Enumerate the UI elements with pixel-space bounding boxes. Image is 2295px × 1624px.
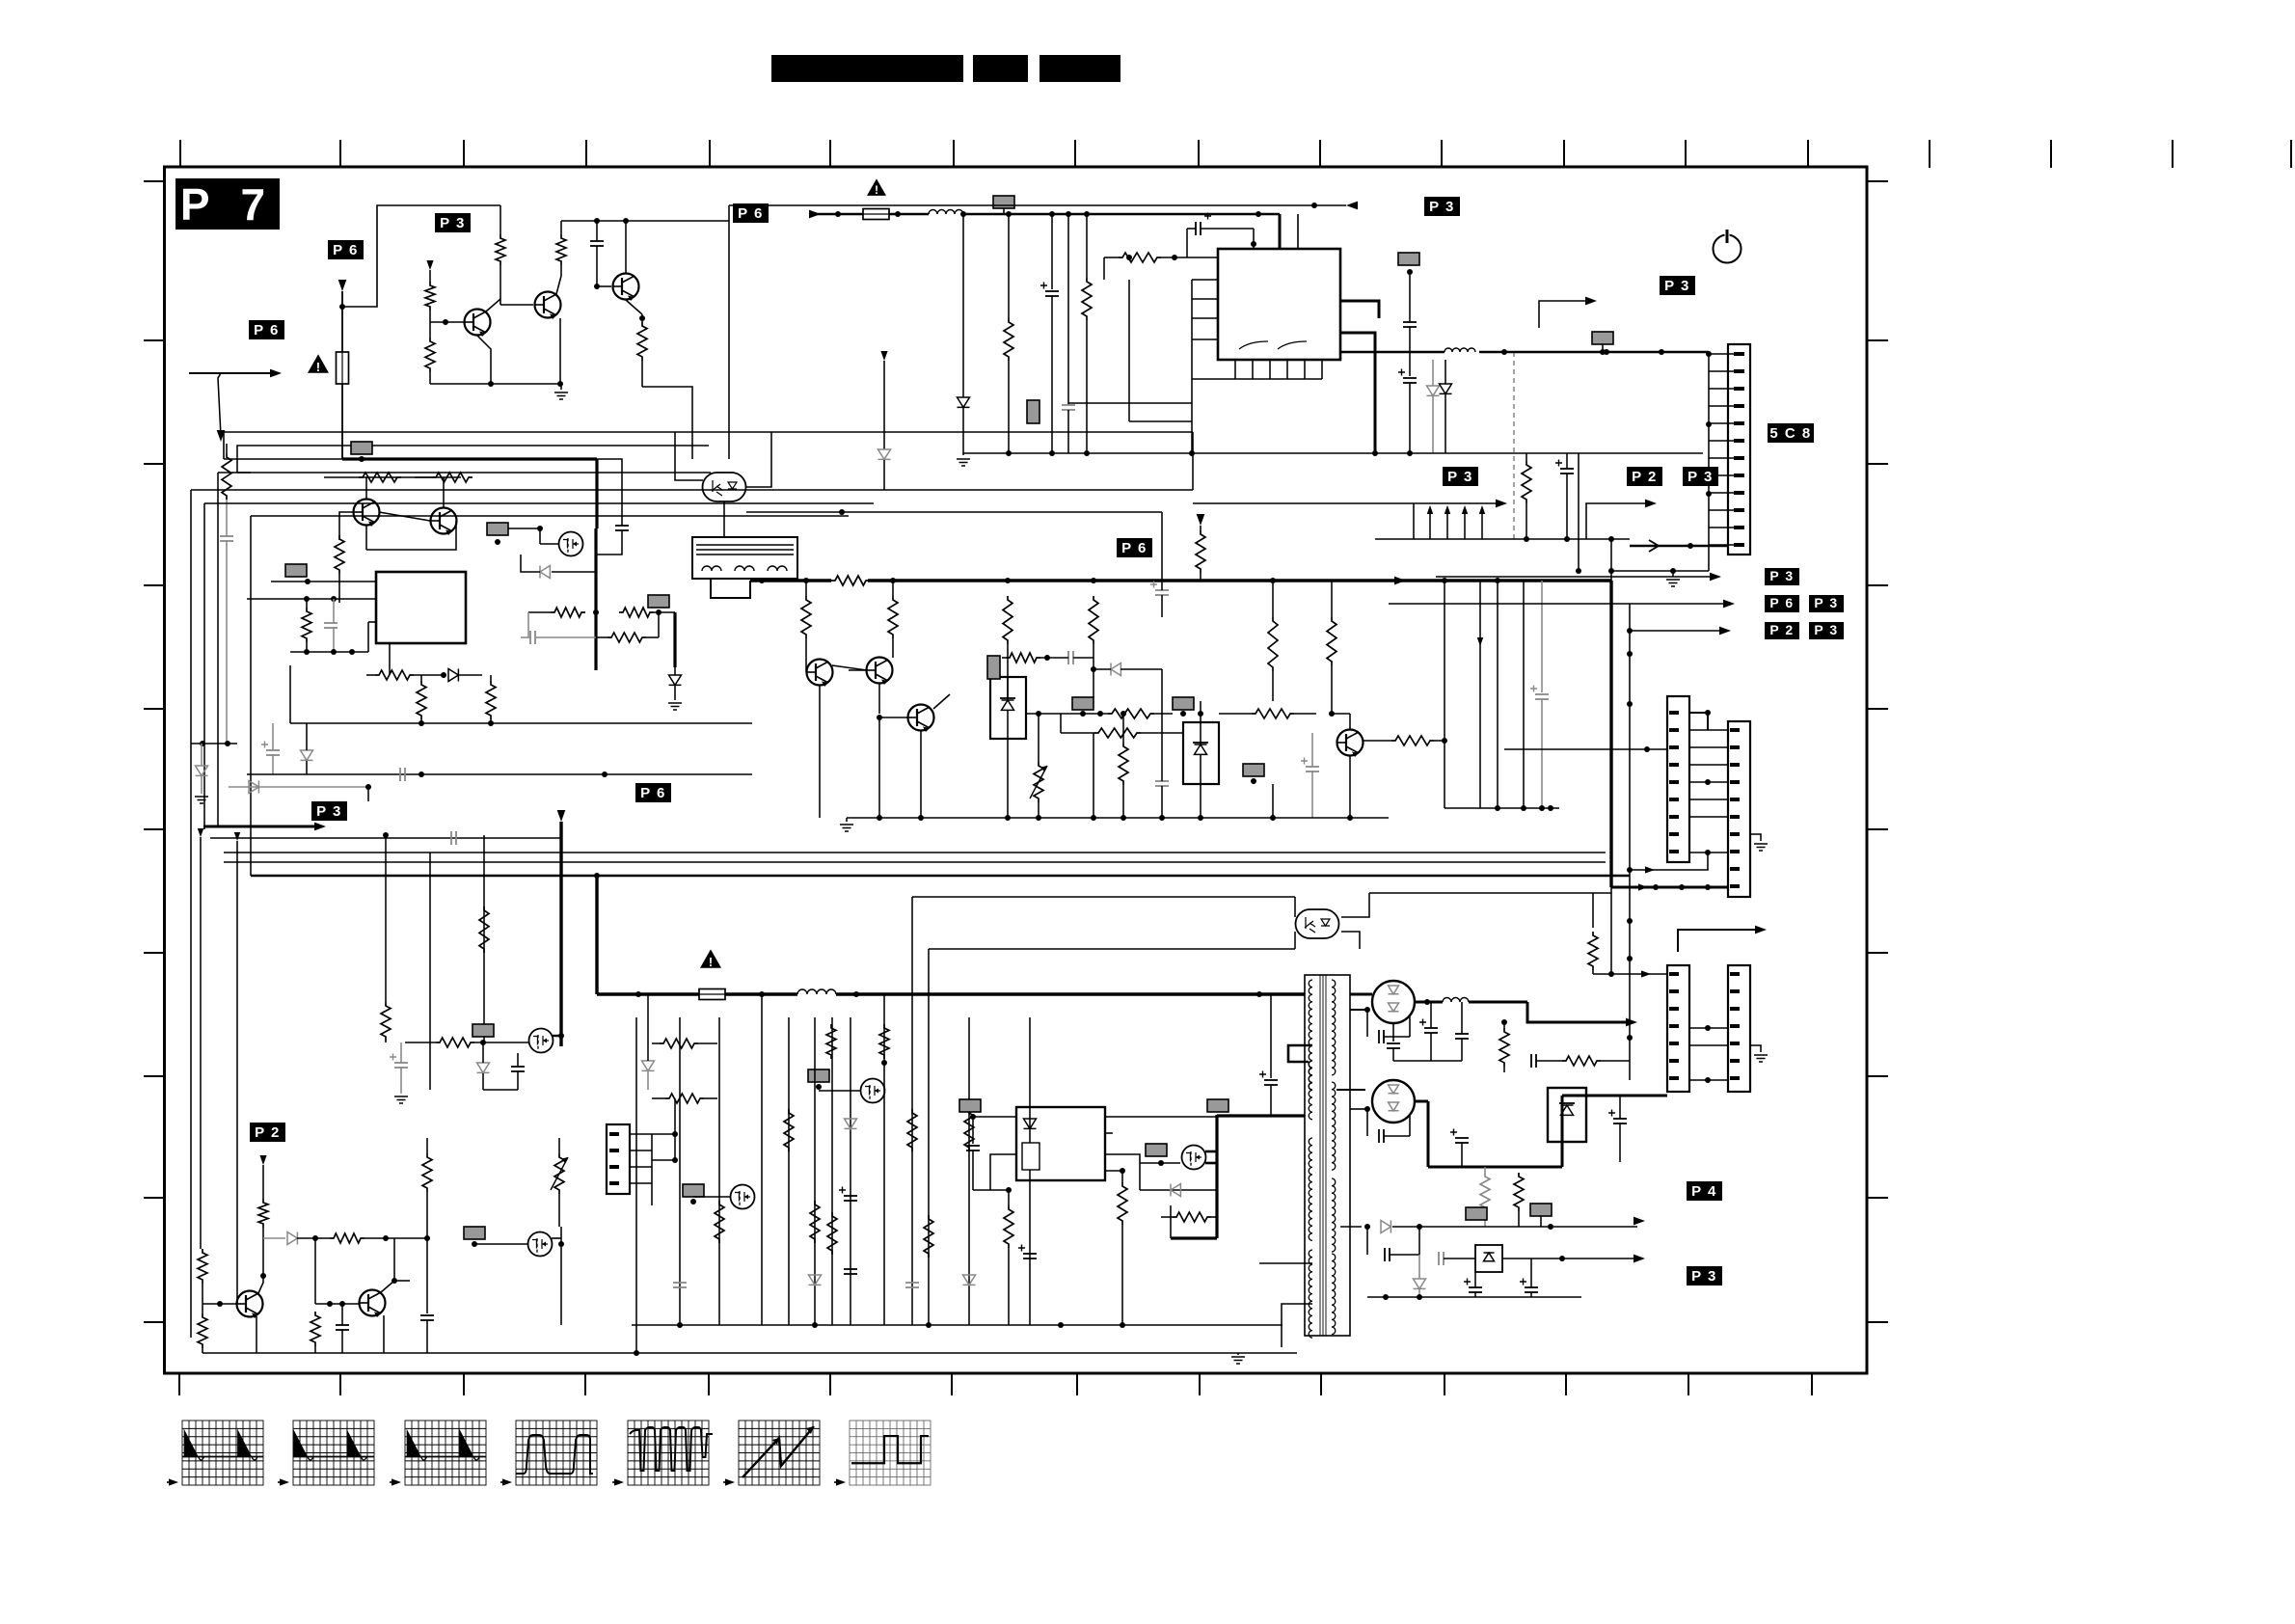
- MOSFET T6: [1182, 1146, 1206, 1170]
- title bars: [771, 55, 963, 82]
- connector CN1b: [1728, 721, 1750, 897]
- resistor: [198, 1313, 207, 1348]
- left verticals: [198, 828, 203, 837]
- waveform box 7: [850, 1421, 931, 1485]
- svg-text:P 3: P 3: [1769, 568, 1794, 583]
- gate parts: [477, 1063, 490, 1072]
- diode: [301, 750, 313, 760]
- resistor R8: [486, 681, 496, 719]
- vertical x1108: [1067, 214, 1069, 405]
- secondary caps: [1424, 1027, 1438, 1029]
- fuse F1: [337, 352, 349, 384]
- DD1 snubber: [1366, 1010, 1368, 1037]
- resistor R10: [801, 596, 811, 638]
- diode row: [263, 1237, 285, 1239]
- thick vertical x619: [595, 876, 598, 994]
- P6 label top: [733, 203, 769, 223]
- bottom rail: [430, 383, 561, 385]
- jumper: [993, 196, 1014, 208]
- fuse F3: [699, 989, 725, 1000]
- net arrow: [426, 260, 433, 270]
- resistor Rh4b: [607, 633, 646, 642]
- resistor R13: [1089, 596, 1098, 644]
- 4pin connector: [607, 1124, 630, 1194]
- connector CN2b: [1728, 965, 1750, 1092]
- secondary thick wires: [1350, 993, 1372, 996]
- svg-text:5 C 8: 5 C 8: [1769, 425, 1811, 442]
- IC right tabs: [1340, 301, 1379, 318]
- components on verticals: [715, 1201, 724, 1243]
- gray jumpers near U4: [959, 1099, 981, 1112]
- right links of U4: [1105, 1116, 1217, 1118]
- IC pins bottom: [1234, 360, 1236, 379]
- resistor Rh2: [432, 473, 472, 482]
- vertical x1127 resistor: [1086, 214, 1088, 278]
- IC U3 box: [1218, 249, 1340, 360]
- SC8 label: [1768, 423, 1814, 443]
- resistor Rh5: [375, 670, 414, 680]
- svg-text:P 3: P 3: [1814, 622, 1838, 637]
- resistor Rh: [330, 1233, 364, 1243]
- vertical x502: [483, 835, 485, 1042]
- warning triangle: [867, 178, 886, 197]
- coil L2: [797, 989, 836, 994]
- thick wire into SC8 bottom pin: [1630, 545, 1727, 548]
- svg-text:!: !: [316, 360, 320, 374]
- P4 label: [1687, 1181, 1722, 1201]
- resistor R4: [556, 234, 566, 265]
- thick B+ bus H: [597, 992, 699, 995]
- vertical x1046: [1008, 214, 1010, 318]
- svg-text:P 2: P 2: [1632, 469, 1658, 485]
- vertical x1671 lower: [1610, 887, 1612, 974]
- nested wires under IC: [1068, 402, 1192, 404]
- cap: [1155, 780, 1169, 782]
- lower parts: [1469, 1286, 1482, 1288]
- svg-text:P 6: P 6: [1769, 595, 1794, 610]
- transistor Q2: [535, 292, 561, 320]
- optocoupler U2: [703, 473, 746, 501]
- svg-text:P 6: P 6: [738, 205, 764, 222]
- thick vertical x1262: [1215, 1115, 1218, 1238]
- resistor R11: [888, 596, 898, 638]
- wire: nested bus left: [224, 458, 342, 460]
- aux output row 2: [1418, 1258, 1420, 1259]
- resistor R5: [637, 322, 647, 361]
- labels stack: [1765, 568, 1799, 585]
- right column parts: [422, 1153, 432, 1192]
- pot: [1034, 762, 1043, 802]
- svg-text:P 3: P 3: [1687, 469, 1714, 485]
- ground: [846, 818, 848, 822]
- resistor R14: [1119, 743, 1128, 785]
- P3 label: [1687, 1266, 1722, 1286]
- jumper: [808, 1069, 829, 1082]
- waveform box 2: [293, 1421, 374, 1485]
- aux caps: [1366, 1227, 1368, 1255]
- verticals grid: [679, 1017, 681, 1325]
- thick bus to transformer: [1217, 1114, 1305, 1117]
- hanging verticals bottom-center: [635, 1017, 637, 1353]
- long vertical x1671: [1610, 539, 1612, 581]
- resistor into IC: [1119, 253, 1161, 262]
- jumper J4: [285, 564, 307, 577]
- ecap: [394, 1062, 408, 1064]
- svg-text:P 6: P 6: [254, 322, 280, 338]
- zener D3: [669, 675, 682, 685]
- svg-text:P 3: P 3: [316, 803, 342, 820]
- svg-text:P 6: P 6: [640, 785, 666, 801]
- resistor R5: [335, 535, 344, 574]
- IC pins left: [271, 581, 376, 582]
- svg-text:P 3: P 3: [1691, 1268, 1717, 1285]
- thick gate bus: [342, 457, 597, 460]
- resistor R2: [425, 282, 435, 311]
- bottom-left transistor stage: [259, 1155, 266, 1165]
- thick bus E feed: [711, 579, 750, 598]
- mains input line: [809, 210, 821, 219]
- jumper vJ: [987, 656, 1000, 679]
- ecap: [1306, 766, 1319, 768]
- IC U4 box: [1016, 1107, 1105, 1180]
- connector SC8: [1728, 344, 1750, 555]
- vertical x400: [385, 835, 387, 1002]
- jumper: [1466, 1207, 1487, 1220]
- transformer TR1: [1305, 975, 1350, 1336]
- MOSFET T1: [559, 532, 583, 556]
- jumper J1: [351, 442, 372, 454]
- P3 label top right: [1424, 197, 1460, 216]
- resistor R20: [1522, 461, 1531, 503]
- bus y838: [1444, 807, 1559, 809]
- jumper: [1530, 1204, 1552, 1216]
- power symbol: [1714, 235, 1741, 263]
- ecap right: [1613, 1118, 1627, 1120]
- svg-text:P 2: P 2: [1769, 622, 1794, 637]
- diode Dg: [1111, 663, 1120, 676]
- resistor top: [660, 1039, 698, 1048]
- gray diode line P3: [229, 786, 368, 788]
- thyristor box 2: [1183, 722, 1219, 784]
- L arrow above CN2: [1678, 930, 1757, 952]
- resistor: [479, 907, 489, 953]
- transistor Q6: [807, 660, 833, 688]
- svg-text:P 6: P 6: [1121, 540, 1147, 556]
- svg-text:P 3: P 3: [440, 215, 466, 231]
- ecap below DD2: [1455, 1137, 1469, 1139]
- page label P7: [175, 178, 280, 230]
- transistor Q7: [867, 658, 893, 686]
- fan arrow 2: [1586, 503, 1649, 539]
- dashed vertical: [1513, 352, 1515, 540]
- bus D: [963, 452, 1703, 454]
- resistor Rh7: [1108, 709, 1154, 718]
- feed wire CN1: [1504, 748, 1667, 750]
- resistor R7: [417, 681, 426, 719]
- resistor Rh: [436, 1038, 474, 1047]
- arrow wire CN1 bottom: [1630, 853, 1708, 870]
- stack arrows right: [1436, 576, 1714, 578]
- MOSFET T3: [731, 1185, 755, 1209]
- dual diode DD2: [1336, 1089, 1365, 1091]
- bus y803: [247, 773, 752, 775]
- jumper J3: [648, 595, 669, 608]
- ruler tick marks: [179, 140, 181, 168]
- resistor: [198, 1249, 207, 1284]
- border frame: [165, 167, 1868, 1373]
- resistor R6: [302, 608, 311, 642]
- P2 net arrow down: [880, 351, 887, 361]
- thin line to P3 left arrow: [729, 204, 1346, 206]
- transistor Q11: [360, 1290, 386, 1318]
- transistor Q5: [431, 508, 457, 536]
- connector CN2a: [1667, 965, 1689, 1092]
- svg-text:P 7: P 7: [180, 179, 275, 230]
- diode D4: [448, 669, 458, 682]
- resistor pair mid: [1480, 1173, 1490, 1211]
- zener small box: [1475, 1245, 1502, 1272]
- rc to right: [1499, 1028, 1509, 1067]
- svg-text:P 3: P 3: [1814, 595, 1838, 610]
- wire: feed from P6 down to fuse F1: [338, 280, 347, 291]
- rail y=495: [324, 476, 461, 478]
- base node: [430, 321, 464, 323]
- T6 gate: [1140, 1162, 1180, 1164]
- P2 label: [250, 1123, 285, 1142]
- capacitor: [266, 749, 280, 751]
- thick to zener: [673, 612, 676, 667]
- P3 thick arrow: [311, 801, 347, 821]
- thick elbow to CN1: [1609, 581, 1612, 887]
- svg-text:P 6: P 6: [333, 242, 359, 258]
- ground bus F: [847, 817, 1389, 819]
- svg-text:P 4: P 4: [1691, 1183, 1717, 1200]
- thick feed into IC: [1279, 214, 1282, 249]
- label P3: [435, 213, 471, 232]
- P6 label: [635, 783, 671, 802]
- ecap: [1560, 468, 1574, 470]
- warning triangle: [700, 949, 721, 968]
- transistor Q3: [613, 274, 639, 302]
- bottom buses: [632, 1324, 1282, 1326]
- transistor Q4: [354, 500, 380, 528]
- cap gray left: [529, 631, 531, 644]
- label P3: [1443, 467, 1478, 486]
- fuse F2: [863, 209, 889, 220]
- coil L1: [929, 210, 963, 215]
- diode lower-left: [200, 741, 205, 746]
- connector CN1a: [1667, 696, 1689, 862]
- right column parts: [1398, 253, 1419, 265]
- capacitor C3: [324, 622, 337, 624]
- waveform box 4: [516, 1421, 597, 1485]
- waveform box 5: [628, 1421, 709, 1485]
- resistor: [310, 1312, 320, 1346]
- wire x1637: [1578, 453, 1579, 571]
- bus under IC: [290, 651, 368, 653]
- label P6: [328, 240, 364, 259]
- feed arrow CN2: [1593, 973, 1667, 975]
- capacitor C2: [615, 525, 629, 527]
- links CN1: [1689, 729, 1728, 731]
- right vertical: [728, 205, 730, 459]
- left links of U4: [973, 1116, 1016, 1118]
- cap on 803: [399, 768, 401, 781]
- label P6: [249, 320, 284, 339]
- jumper: [1173, 697, 1194, 710]
- vertical x999 with zener: [962, 214, 964, 397]
- long vertical x1690: [1629, 604, 1631, 1080]
- wire to SC8 pin with ground: [1611, 570, 1709, 572]
- thick vertical x582: [557, 810, 566, 822]
- horizontals: [210, 837, 561, 839]
- aux winding connections: [1259, 1262, 1312, 1264]
- top-left loop wire: [342, 205, 500, 307]
- waveform box 1: [182, 1421, 263, 1485]
- jumper: [683, 1184, 704, 1197]
- primary tap: [1288, 1045, 1312, 1062]
- top rail B: [561, 220, 729, 222]
- main bus E: [750, 579, 831, 582]
- diode row: [1139, 1163, 1141, 1190]
- thyristor box 1: [990, 677, 1026, 739]
- fan arrows P3: [1193, 502, 1414, 504]
- resistor R1: [496, 234, 505, 265]
- resistor mid: [665, 1094, 704, 1103]
- jumper: [1072, 697, 1093, 710]
- resistor R15 top: [1197, 514, 1205, 526]
- waveform box 6: [739, 1421, 820, 1485]
- resistor to thick: [1173, 1212, 1211, 1222]
- IC U1 box: [376, 572, 466, 643]
- arrow input left: [189, 372, 276, 374]
- optocoupler U5: [1296, 909, 1339, 938]
- diode D2: [540, 566, 550, 579]
- resistor R17: [1327, 617, 1336, 665]
- main output bus C: [1340, 351, 1444, 354]
- svg-text:P 3: P 3: [1447, 469, 1473, 485]
- jumper: [1243, 764, 1264, 776]
- long second bus: [912, 896, 1295, 898]
- svg-text:P 3: P 3: [1664, 278, 1690, 294]
- aux output row 1: [1340, 1226, 1362, 1228]
- transistor Q1: [465, 310, 491, 338]
- labels P2 P3: [1627, 467, 1662, 486]
- thick drain bus down: [594, 528, 597, 670]
- svg-text:!: !: [875, 183, 878, 197]
- small arrow up right: [1539, 301, 1589, 328]
- MOSFET T2: [529, 1029, 553, 1053]
- resistor Rh4: [619, 608, 654, 617]
- cap on line: [450, 831, 452, 845]
- resistor: [258, 1199, 268, 1228]
- resistor right: [1588, 932, 1598, 970]
- line filter box: [692, 537, 797, 579]
- svg-text:P 2: P 2: [255, 1124, 281, 1141]
- dual diode DD1: [1372, 981, 1415, 1023]
- IC internal bottom marks: [1239, 341, 1307, 349]
- cap: [336, 1324, 349, 1326]
- P3 label: [1660, 276, 1695, 295]
- resistor left column: [226, 444, 228, 453]
- jumper: [464, 1227, 485, 1239]
- cap h: [1067, 651, 1069, 664]
- warning triangle: [308, 354, 329, 373]
- hanging wires right of arrow: [1444, 581, 1445, 808]
- MOSFET T5: [861, 1079, 885, 1103]
- jumper v: [1027, 400, 1039, 423]
- waveform box 3: [405, 1421, 486, 1485]
- transistor Q8: [908, 705, 934, 733]
- links CN2: [1689, 1027, 1728, 1029]
- long horizontals to left: [1192, 432, 1194, 490]
- jumper J2: [487, 523, 508, 535]
- diode gray: [642, 1061, 655, 1070]
- thick bus into CN1b: [1611, 886, 1728, 889]
- resistor Rh9: [1252, 709, 1294, 718]
- primary left connections: [1271, 993, 1305, 995]
- jumper: [472, 1024, 494, 1037]
- svg-text:!: !: [709, 955, 713, 969]
- resistor R12: [1003, 596, 1012, 644]
- vertical x1091 ecap: [1051, 214, 1053, 289]
- DD2 snubber: [1366, 1109, 1368, 1136]
- resistor Rh1: [359, 473, 401, 482]
- jumper: [1592, 332, 1613, 344]
- adjustable R: [554, 1153, 564, 1194]
- resistor Rh3: [551, 608, 585, 617]
- transistor Q10: [237, 1291, 263, 1319]
- opto line right: [746, 511, 1162, 513]
- jumper: [1146, 1144, 1167, 1156]
- zener block: [1548, 1088, 1586, 1142]
- resistor R3: [425, 338, 435, 372]
- wires from connector: [652, 1133, 675, 1135]
- transistor Q9: [1337, 730, 1363, 758]
- svg-text:P 3: P 3: [1429, 199, 1455, 215]
- bus y559: [1375, 538, 1630, 540]
- resistor Rh10: [1391, 736, 1434, 745]
- vertical x446: [429, 853, 431, 1090]
- resistor on bus: [831, 576, 870, 585]
- coil: [1443, 998, 1469, 1003]
- ecap: [1155, 589, 1169, 591]
- capacitor C1: [590, 240, 604, 242]
- label P6 center: [1117, 538, 1152, 557]
- wire: left verticals to bottom: [190, 490, 192, 1338]
- MOSFET T4: [528, 1232, 553, 1257]
- resistor Rh6: [1006, 653, 1040, 663]
- resistor Rh8: [1094, 728, 1141, 738]
- resistor R16: [1268, 617, 1278, 671]
- cap top: [1195, 222, 1197, 235]
- capacitor: [220, 535, 233, 537]
